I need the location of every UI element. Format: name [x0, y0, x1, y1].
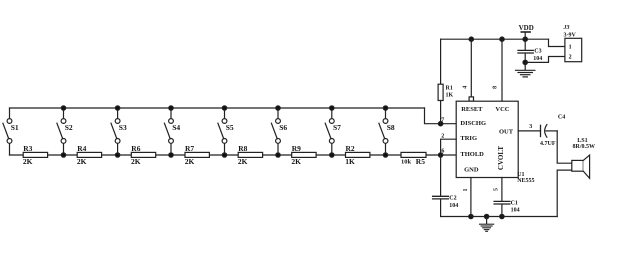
pin number 1 [463, 189, 469, 192]
wire GND pin 1 [470, 178, 472, 217]
resistor R6 2K [131, 144, 156, 166]
wire top rail [10, 107, 425, 109]
capacitor C1 104 [494, 201, 519, 217]
svg-text:S3: S3 [119, 123, 127, 132]
svg-text:R7: R7 [185, 144, 194, 153]
svg-text:THOLD: THOLD [460, 151, 484, 158]
pin number 8 [493, 86, 499, 89]
node bottom rail junctions [61, 153, 387, 157]
pin number 4 [462, 86, 468, 89]
svg-text:R4: R4 [77, 144, 86, 153]
wire TRIG pin 2 [441, 139, 457, 155]
svg-text:8R/0.5W: 8R/0.5W [573, 144, 596, 150]
wire VDD rail to J3 pin 1 [549, 39, 565, 46]
svg-text:104: 104 [449, 203, 458, 209]
wire CVOLT pin 5 [501, 178, 503, 202]
power symbol VDD [519, 24, 534, 39]
switch S4 [164, 108, 180, 155]
wire C3 node to J3 pin 2 [525, 57, 565, 63]
svg-text:3-9V: 3-9V [564, 33, 577, 39]
svg-text:S5: S5 [226, 123, 234, 132]
svg-text:C2: C2 [449, 196, 456, 202]
svg-text:2K: 2K [185, 157, 195, 166]
svg-text:GND: GND [464, 166, 479, 173]
resistor R4 2K [77, 144, 102, 166]
svg-text:C4: C4 [558, 115, 565, 121]
svg-text:2: 2 [569, 54, 572, 60]
svg-text:R5: R5 [416, 157, 425, 166]
connector J3 3-9V [563, 25, 582, 62]
svg-text:J3: J3 [563, 25, 570, 31]
resistor R9 2K [291, 144, 316, 166]
svg-text:2K: 2K [77, 157, 87, 166]
wire C4 to speaker top terminal [557, 131, 572, 163]
wire ground rail to speaker bottom terminal [557, 170, 572, 216]
node below C3 [523, 60, 527, 64]
svg-text:2K: 2K [291, 157, 301, 166]
svg-text:1: 1 [569, 45, 572, 51]
svg-text:104: 104 [533, 56, 542, 62]
resistor R7 2K [185, 144, 210, 166]
switch S5 [218, 108, 234, 155]
svg-text:R3: R3 [23, 144, 32, 153]
svg-text:C1: C1 [511, 201, 518, 207]
svg-text:2K: 2K [238, 157, 248, 166]
switch S8 [379, 108, 395, 155]
svg-text:1K: 1K [345, 157, 355, 166]
wire top rail to DISCHG pin 7 [425, 108, 457, 124]
svg-text:S1: S1 [11, 123, 19, 132]
pin number 6 [441, 149, 444, 155]
node ground rail junctions [469, 214, 504, 218]
node DISCHG junction [438, 122, 442, 126]
svg-text:R8: R8 [238, 144, 247, 153]
svg-text:1K: 1K [446, 93, 454, 99]
wire OUT pin 3 [518, 130, 540, 132]
pin number 7 [441, 117, 444, 123]
wire VCC pin 8 [501, 39, 503, 101]
resistor R1 1K [438, 39, 453, 124]
ground below C3 [516, 62, 535, 77]
svg-text:8: 8 [493, 86, 499, 89]
svg-text:S8: S8 [387, 123, 395, 132]
switch S1 [3, 108, 19, 155]
resistor R3 2K [23, 144, 48, 166]
svg-text:R2: R2 [346, 144, 355, 153]
pin number 5 [494, 188, 500, 191]
svg-text:S2: S2 [65, 123, 73, 132]
svg-text:2K: 2K [23, 157, 33, 166]
svg-text:TRIG: TRIG [460, 135, 477, 142]
svg-text:2: 2 [441, 133, 444, 139]
resistor R5 10k [401, 152, 426, 166]
switch S7 [325, 108, 341, 155]
svg-text:2K: 2K [131, 157, 141, 166]
ground below IC [480, 217, 494, 232]
op-amp U1 NE555 IC body [456, 101, 534, 184]
svg-text:NE555: NE555 [517, 178, 534, 184]
svg-text:VCC: VCC [495, 106, 509, 113]
svg-text:104: 104 [511, 207, 520, 213]
wire VDD rail [441, 38, 549, 40]
wire bottom rail [10, 154, 457, 156]
capacitor C2 104 [433, 155, 459, 217]
resistor R8 2K [238, 144, 263, 166]
svg-text:R9: R9 [292, 144, 301, 153]
pin number 2 [441, 133, 444, 139]
svg-text:R1: R1 [446, 86, 453, 92]
resistor R2 1K [345, 144, 370, 166]
wire ground rail [441, 216, 558, 218]
switch S6 [271, 108, 287, 155]
svg-text:5: 5 [494, 188, 500, 191]
svg-text:RESET: RESET [461, 106, 483, 113]
svg-text:DISCHG: DISCHG [460, 120, 486, 127]
svg-text:1: 1 [463, 189, 469, 192]
switch S3 [111, 108, 127, 155]
svg-text:S6: S6 [279, 123, 287, 132]
svg-text:R6: R6 [131, 144, 140, 153]
svg-text:S4: S4 [172, 123, 180, 132]
svg-text:3: 3 [529, 124, 532, 130]
capacitor C4 4.7UF polarized [540, 115, 565, 147]
svg-text:10k: 10k [401, 158, 412, 165]
node top rail junctions [61, 106, 387, 110]
svg-text:6: 6 [441, 149, 444, 155]
svg-text:S7: S7 [333, 123, 341, 132]
svg-text:OUT: OUT [499, 128, 514, 135]
svg-text:7: 7 [441, 117, 444, 123]
svg-text:4: 4 [462, 86, 468, 89]
capacitor C3 104 [518, 39, 542, 62]
node TRIG THOLD junction [438, 153, 442, 157]
svg-text:CVOLT: CVOLT [497, 146, 505, 170]
switch S2 [57, 108, 73, 155]
node VDD rail junctions [469, 37, 527, 41]
speaker LS1 [572, 138, 595, 178]
svg-text:C3: C3 [534, 48, 541, 54]
pin number 3 [529, 124, 532, 130]
svg-text:VDD: VDD [519, 24, 534, 32]
wire RESET pin 4 [469, 39, 473, 101]
svg-text:4.7UF: 4.7UF [540, 141, 556, 147]
